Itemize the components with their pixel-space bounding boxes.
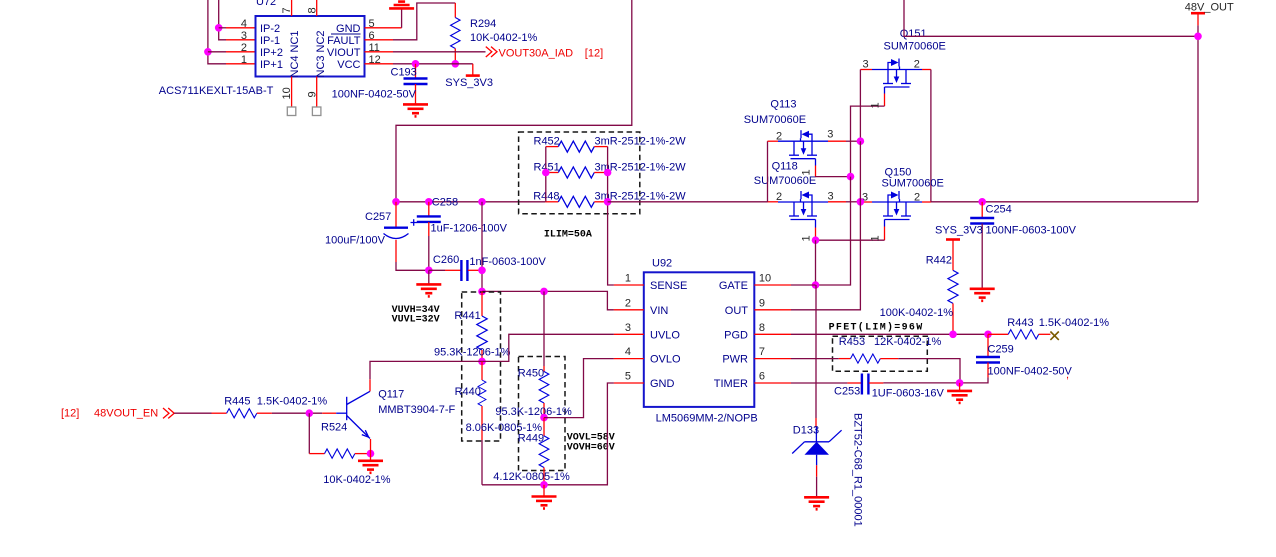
svg-text:GATE: GATE: [719, 280, 748, 292]
wire FAULT net to R294 top: [365, 3, 456, 40]
wire UVLO net to Q117 collector: [370, 361, 482, 379]
node VIN branch junction: [478, 288, 486, 296]
svg-text:R449: R449: [518, 433, 544, 445]
svg-text:1.5K-0402-1%: 1.5K-0402-1%: [1039, 317, 1110, 329]
svg-text:IP-2: IP-2: [260, 23, 280, 35]
svg-text:12K-0402-1%: 12K-0402-1%: [874, 336, 941, 348]
resistor R448 (on rail): [533, 191, 686, 208]
svg-text:ILIM=50A: ILIM=50A: [544, 230, 592, 241]
capacitor C257 (polarized): [325, 202, 429, 270]
svg-text:GND: GND: [336, 23, 361, 35]
resistor R450: [495, 291, 572, 418]
wire main rail Q118 lead-in: [768, 201, 779, 203]
svg-text:VOUT30A_IAD: VOUT30A_IAD: [499, 47, 574, 59]
node OVLO junction: [540, 414, 548, 422]
svg-text:U72: U72: [256, 0, 276, 8]
wire UVLO net to pin3: [482, 334, 614, 361]
svg-text:C254: C254: [986, 204, 1012, 216]
svg-text:R294: R294: [470, 18, 496, 30]
svg-text:3: 3: [827, 129, 833, 141]
svg-text:2: 2: [241, 42, 247, 54]
svg-text:LM5069MM-2/NOPB: LM5069MM-2/NOPB: [656, 413, 758, 425]
transistor Q113: [744, 99, 861, 202]
resistor R452: [534, 136, 687, 153]
svg-text:1uF-1206-100V: 1uF-1206-100V: [431, 223, 508, 235]
wire rail right section: [931, 201, 1198, 203]
transistor Q151: [863, 28, 946, 87]
pin 7 of U72: [281, 0, 293, 16]
node R451 left junction: [542, 169, 550, 177]
dashed box OVLO divider: [519, 357, 566, 471]
svg-text:PFET(LIM)=96W: PFET(LIM)=96W: [829, 322, 924, 334]
svg-text:C193: C193: [391, 67, 417, 79]
svg-text:R440: R440: [455, 386, 481, 398]
wire main rail y=202 left section: [396, 201, 545, 203]
wire divider drop from rail: [481, 202, 483, 292]
wire left feeder B (vertical from top to U72 pin IP-1): [219, 0, 256, 40]
svg-text:[12]: [12]: [585, 47, 603, 59]
node C257/C258/C260 bottom junction: [425, 267, 433, 275]
resistor R453: [839, 336, 960, 383]
svg-text:4: 4: [241, 18, 247, 30]
wire PGD net: [791, 333, 988, 335]
transistor Q150: [860, 167, 943, 220]
svg-text:9: 9: [306, 91, 318, 97]
pin 8 stub: [754, 333, 791, 335]
svg-text:IP-1: IP-1: [260, 35, 280, 47]
svg-text:SUM70060E: SUM70060E: [884, 41, 946, 53]
svg-text:PWR: PWR: [722, 354, 748, 366]
svg-text:R445: R445: [224, 396, 250, 408]
transistor Q118: [754, 161, 834, 220]
pin 9 stub: [754, 309, 791, 311]
svg-text:2: 2: [914, 59, 920, 71]
svg-text:8: 8: [306, 7, 318, 13]
svg-text:100uF/100V: 100uF/100V: [325, 235, 386, 247]
svg-text:95.3K-1206-1%: 95.3K-1206-1%: [434, 347, 511, 359]
pin 10 stub: [754, 284, 791, 286]
wire sense left leg: [545, 147, 547, 202]
dashed box sense resistors: [519, 132, 640, 214]
svg-text:100K-0402-1%: 100K-0402-1%: [880, 307, 954, 319]
wire gate net B to A: [815, 240, 817, 285]
node rail at C257: [392, 198, 400, 206]
svg-text:1: 1: [625, 273, 631, 285]
wire Q151 source lead to OUT column: [860, 70, 872, 142]
node R442 bottom junction: [949, 331, 957, 339]
node C259/R443 junction: [984, 331, 992, 339]
wire R294 bottom to VCC net: [454, 49, 456, 64]
pin 2 stub: [614, 309, 644, 311]
svg-text:Q117: Q117: [378, 389, 404, 401]
svg-text:4: 4: [625, 346, 631, 358]
resistor R451: [534, 161, 687, 178]
node C260 right junction: [478, 267, 486, 275]
resistor R441: [434, 291, 511, 361]
svg-text:ACS711KEXLT-15AB-T: ACS711KEXLT-15AB-T: [159, 85, 274, 97]
svg-text:3: 3: [241, 30, 247, 42]
wire 48V_OUT horizontal to Q151: [904, 0, 1198, 36]
resistor R443: [988, 317, 1109, 339]
node 48V_OUT junction: [1194, 33, 1202, 41]
svg-text:8: 8: [759, 322, 765, 334]
svg-text:100NF-0603-100V: 100NF-0603-100V: [986, 225, 1077, 237]
pin 6 stub: [754, 382, 791, 384]
wire Q113 gate drop: [801, 159, 851, 177]
svg-text:1nF-0603-100V: 1nF-0603-100V: [469, 256, 546, 268]
pin 7 stub: [754, 358, 791, 360]
resistor R445: [212, 396, 328, 418]
wire VIN net: [482, 291, 614, 309]
svg-text:SUM70060E: SUM70060E: [744, 114, 806, 126]
svg-text:IP+1: IP+1: [260, 59, 283, 71]
wire OUT column to pin 9: [791, 141, 860, 310]
node junction on feeder B (pin IP-2 tap): [215, 24, 256, 32]
ground (flipped) on U72 GND pin: [389, 2, 414, 9]
wire left feeder A (vertical from top to U72 pin IP+1): [208, 0, 256, 64]
ground at TIMER junction: [947, 383, 972, 403]
svg-text:3: 3: [828, 191, 834, 203]
resistor R442: [880, 255, 958, 335]
svg-text:D133: D133: [793, 425, 819, 437]
op-amp U72 current sensor body: [159, 0, 381, 97]
svg-text:R524: R524: [321, 422, 347, 434]
svg-text:PGD: PGD: [724, 329, 748, 341]
node Q118/Q150 on OUT column: [857, 198, 865, 206]
svg-text:NC3: NC3: [315, 55, 327, 77]
svg-text:GND: GND: [650, 378, 675, 390]
wire PWR net to R453: [791, 358, 851, 360]
svg-text:SYS_3V3: SYS_3V3: [445, 77, 493, 89]
svg-text:OVLO: OVLO: [650, 354, 681, 366]
wire R445 to Q117 base: [272, 412, 336, 414]
power symbol 48V_OUT: [1185, 2, 1234, 26]
svg-text:R452: R452: [534, 136, 560, 148]
wire GATE pin10 to node A: [791, 284, 816, 286]
svg-text:VUVL=32V: VUVL=32V: [392, 315, 440, 326]
pin 8 of U72: [306, 0, 318, 16]
resistor R294: [451, 18, 538, 49]
svg-text:C259: C259: [988, 344, 1014, 356]
node C193 tap on VCC: [412, 60, 420, 68]
svg-text:SUM70060E: SUM70060E: [882, 178, 944, 190]
ground bottom center: [532, 485, 557, 509]
power symbol SYS_3V3 (down): [445, 64, 493, 89]
dashed box R453: [833, 336, 928, 371]
wire Q151 drain lead down to rail: [922, 70, 931, 202]
svg-text:IP+2: IP+2: [260, 47, 283, 59]
wire TIMER net to C253: [791, 382, 861, 384]
node Q113 source on OUT column: [857, 137, 865, 145]
svg-text:C260: C260: [433, 254, 459, 266]
svg-text:1UF-0603-16V: 1UF-0603-16V: [872, 388, 945, 400]
svg-text:1.5K-0402-1%: 1.5K-0402-1%: [257, 396, 328, 408]
svg-text:Q118: Q118: [772, 161, 798, 173]
node ground net junction: [540, 481, 548, 489]
svg-text:4.12K-0805-1%: 4.12K-0805-1%: [493, 471, 570, 483]
capacitor C260: [429, 254, 547, 281]
svg-text:UVLO: UVLO: [650, 329, 680, 341]
pin 3 stub: [614, 333, 644, 335]
pin 9 of U72 (no connect): [306, 77, 321, 116]
ground below D133: [804, 497, 829, 509]
svg-text:2: 2: [625, 297, 631, 309]
ground below C254: [970, 289, 995, 301]
ground at Q117 emitter: [358, 454, 383, 473]
svg-text:48VOUT_EN: 48VOUT_EN: [94, 408, 158, 420]
wire gate net down to D133: [815, 285, 817, 428]
svg-text:1: 1: [241, 54, 247, 66]
svg-text:10K-0402-1%: 10K-0402-1%: [470, 32, 537, 44]
wire Q151 gate drop: [851, 87, 885, 177]
power symbol SYS_3V3 (R442): [935, 225, 983, 271]
capacitor C254: [970, 202, 1076, 288]
svg-text:SUM70060E: SUM70060E: [754, 175, 816, 187]
svg-text:NC1: NC1: [289, 30, 301, 52]
ground below C258 junction: [416, 270, 441, 296]
wire Q150 gate drop: [816, 220, 885, 242]
svg-text:1: 1: [870, 235, 882, 241]
wire Q118 gate drop: [801, 220, 816, 242]
node UVLO junction: [478, 358, 486, 366]
svg-text:1: 1: [801, 169, 813, 175]
svg-text:[12]: [12]: [61, 408, 79, 420]
svg-text:BZT52-C68_R1_00001: BZT52-C68_R1_00001: [852, 413, 864, 527]
svg-text:U92: U92: [652, 258, 672, 270]
svg-text:FAULT: FAULT: [327, 35, 361, 47]
svg-text:100NF-0402-50V: 100NF-0402-50V: [332, 89, 417, 101]
wire bottom ground net: [482, 383, 614, 485]
resistor R449: [493, 418, 570, 485]
svg-text:MMBT3904-7-F: MMBT3904-7-F: [378, 404, 455, 416]
resistor R440: [455, 361, 543, 484]
wire main rail middle section: [608, 201, 768, 203]
svg-text:100NF-0402-50V: 100NF-0402-50V: [988, 366, 1073, 378]
svg-text:1: 1: [801, 235, 813, 241]
svg-text:R441: R441: [454, 310, 480, 322]
svg-text:3: 3: [863, 59, 869, 71]
node R294/VCC junction: [452, 60, 460, 68]
no-connect X: [1050, 332, 1058, 340]
annotation VUVH/VUVL: [392, 305, 440, 326]
chip U92 hot swap controller: [625, 258, 771, 425]
capacitor C193: [332, 64, 428, 104]
svg-text:R453: R453: [839, 336, 865, 348]
pin 1 stub: [614, 284, 644, 286]
svg-text:1: 1: [870, 102, 882, 108]
svg-text:95.3K-1206-1%: 95.3K-1206-1%: [495, 406, 572, 418]
svg-text:2: 2: [776, 191, 782, 203]
wire VCC pin12 net: [365, 63, 473, 65]
svg-text:Q113: Q113: [770, 99, 796, 111]
svg-text:SYS_3V3: SYS_3V3: [935, 225, 983, 237]
svg-text:10: 10: [759, 273, 771, 285]
dashed box UVLO divider: [462, 292, 501, 441]
annotation VOVL/VOVH: [567, 433, 615, 454]
off-page connector 48VOUT_EN: [61, 408, 174, 420]
node rail at C258: [425, 198, 433, 206]
svg-text:VIOUT: VIOUT: [327, 47, 361, 59]
wire down to R524: [308, 413, 310, 453]
capacitor C253: [834, 374, 960, 400]
wire Q118 drain to OUT column: [828, 201, 860, 203]
svg-text:,: ,: [1066, 369, 1069, 381]
wire gate column down: [816, 177, 851, 285]
svg-text:7: 7: [759, 346, 765, 358]
svg-text:TIMER: TIMER: [714, 378, 748, 390]
svg-text:OUT: OUT: [725, 305, 749, 317]
wire 48V_OUT drop: [1197, 25, 1199, 202]
svg-text:SENSE: SENSE: [650, 280, 687, 292]
diode D133 zener: [792, 413, 863, 527]
pin 10 of U72 (no connect): [281, 77, 296, 116]
wire 48VOUT_EN to R445: [174, 412, 211, 414]
svg-text:R450: R450: [518, 368, 544, 380]
svg-text:10K-0402-1%: 10K-0402-1%: [323, 474, 390, 486]
ground below C193: [403, 104, 428, 116]
wire top loop from rail to top edge: [396, 0, 632, 202]
svg-text:7: 7: [281, 7, 293, 13]
svg-text:C257: C257: [365, 211, 391, 223]
svg-text:9: 9: [759, 297, 765, 309]
wire OVLO net to pin4: [544, 359, 614, 418]
wire GND pin5 of U72: [365, 8, 402, 27]
node gate net B: [812, 236, 820, 244]
wire sense right leg down to SENSE pin: [608, 147, 614, 285]
pin 5 stub: [614, 382, 644, 384]
pin 4 stub: [614, 358, 644, 360]
node R451 right junction: [604, 169, 612, 177]
svg-text:VIN: VIN: [650, 305, 668, 317]
svg-text:3mR-2512-1%-2W: 3mR-2512-1%-2W: [595, 136, 687, 148]
wire VIOUT net to off-page: [365, 51, 486, 53]
node rail at divider: [478, 198, 486, 206]
node TIMER ground junction: [956, 379, 964, 387]
node Q113 gate junction: [847, 173, 855, 181]
node R448 right junction on rail: [604, 198, 612, 206]
svg-text:VCC: VCC: [337, 59, 360, 71]
svg-text:NC4: NC4: [289, 55, 301, 77]
svg-text:10: 10: [281, 87, 293, 99]
svg-text:6: 6: [759, 371, 765, 383]
off-page connector VOUT30A_IAD: [486, 47, 603, 60]
node junction on feeder A (pin IP+2 tap): [204, 48, 255, 56]
svg-text:3: 3: [625, 322, 631, 334]
svg-text:R442: R442: [926, 255, 952, 267]
node gate net A (pin10): [812, 281, 820, 289]
svg-text:2: 2: [776, 131, 782, 143]
node emitter/R524 junction: [367, 450, 375, 458]
svg-text:2: 2: [914, 192, 920, 204]
svg-text:C253: C253: [834, 386, 860, 398]
transistor Q117: [336, 379, 455, 453]
capacitor C258: [417, 197, 508, 271]
svg-text:48V_OUT: 48V_OUT: [1185, 2, 1234, 14]
node base/R524 junction: [306, 409, 314, 417]
svg-text:C258: C258: [432, 197, 458, 209]
svg-text:NC2: NC2: [315, 30, 327, 52]
node rail at C254: [978, 198, 986, 206]
svg-text:R443: R443: [1007, 317, 1033, 329]
svg-text:5: 5: [625, 371, 631, 383]
node R450 branch on VIN net: [540, 288, 548, 296]
resistor R524: [309, 422, 390, 487]
capacitor C259: [960, 334, 1073, 383]
